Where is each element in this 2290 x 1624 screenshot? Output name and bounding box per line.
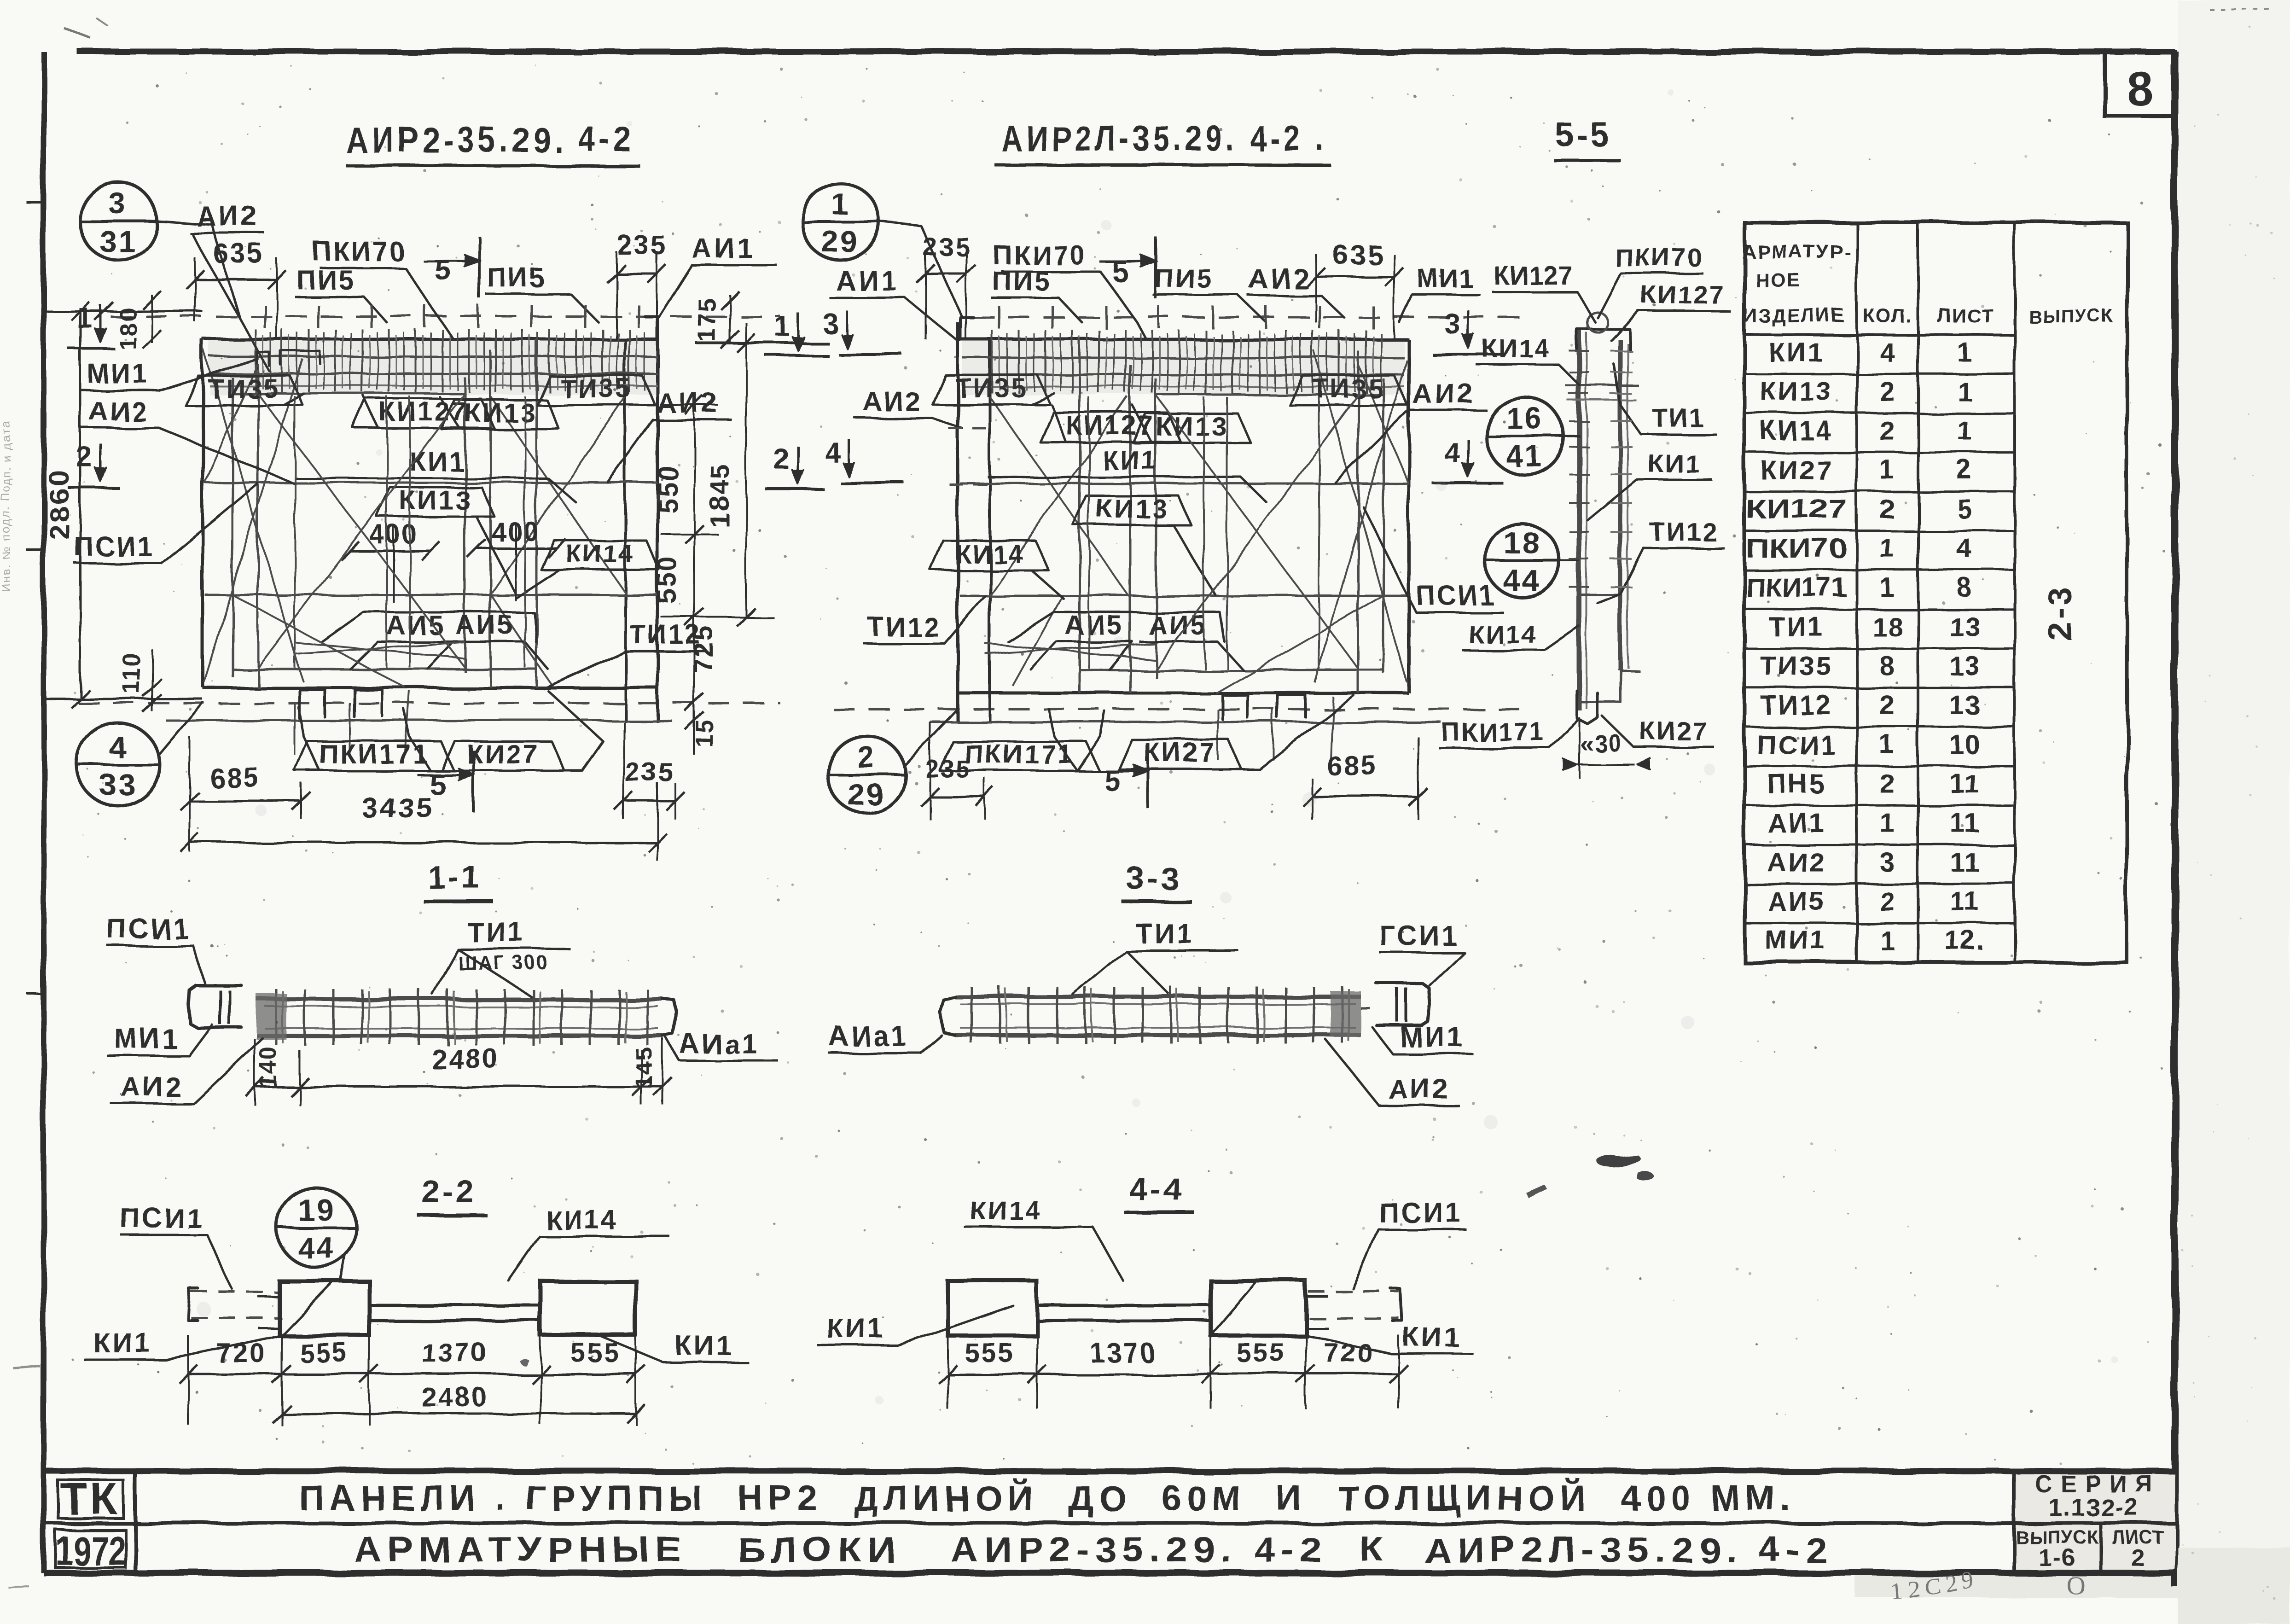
svg-text:2-3: 2-3 [2041, 584, 2078, 640]
svg-text:ЛИСТ: ЛИСТ [1938, 305, 1994, 326]
svg-text:110: 110 [118, 652, 145, 695]
svg-text:3: 3 [823, 308, 839, 340]
svg-text:8: 8 [1957, 573, 1973, 603]
svg-text:2: 2 [1880, 377, 1895, 407]
svg-text:235: 235 [923, 232, 971, 261]
3-3 left hook [939, 997, 955, 1035]
svg-text:ШАГ 300: ШАГ 300 [458, 952, 549, 974]
svg-text:КИ127: КИ127 [1642, 281, 1726, 310]
svg-text:8: 8 [1880, 651, 1895, 681]
svg-text:КИ127: КИ127 [1746, 495, 1847, 524]
circle 4/33 [77, 723, 160, 806]
svg-text:КИ14: КИ14 [955, 539, 1024, 568]
1-1 left hook ПСИ1 [188, 985, 241, 1027]
svg-text:41: 41 [1506, 439, 1543, 473]
svg-text:2: 2 [1880, 769, 1895, 799]
svg-text:2: 2 [1957, 455, 1973, 485]
svg-text:3: 3 [1880, 847, 1895, 877]
svg-text:КИ1: КИ1 [1402, 1321, 1461, 1352]
svg-text:2: 2 [857, 739, 876, 774]
svg-text:АИ5: АИ5 [1767, 887, 1826, 917]
svg-text:2: 2 [77, 442, 93, 473]
svg-text:ГСИ1: ГСИ1 [1379, 920, 1459, 951]
svg-text:АИ1: АИ1 [836, 265, 899, 296]
svg-text:АИ2: АИ2 [863, 387, 922, 417]
svg-text:555: 555 [571, 1338, 621, 1368]
svg-text:13: 13 [1949, 651, 1981, 681]
svg-text:175: 175 [693, 296, 721, 342]
svg-text:2: 2 [2131, 1544, 2145, 1571]
title block [2014, 1471, 2175, 1573]
svg-text:КИ1: КИ1 [674, 1330, 733, 1361]
svg-text:2480: 2480 [431, 1043, 500, 1074]
svg-text:555: 555 [299, 1338, 349, 1368]
svg-text:КИ14: КИ14 [970, 1196, 1043, 1226]
inner cage КИ1 [232, 378, 234, 677]
svg-text:ПИ5: ПИ5 [993, 267, 1052, 297]
svg-text:КИ1: КИ1 [409, 447, 465, 477]
svg-text:АИ2: АИ2 [196, 201, 260, 232]
mesh band (middle) [962, 357, 1404, 359]
svg-text:АИ2: АИ2 [89, 396, 148, 426]
svg-text:АРМАТУР-: АРМАТУР- [1742, 240, 1852, 262]
svg-text:13: 13 [1949, 691, 1981, 721]
svg-text:15: 15 [692, 718, 718, 748]
svg-text:555: 555 [1237, 1338, 1287, 1368]
svg-text:10: 10 [1949, 730, 1981, 760]
svg-text:КИ1: КИ1 [1768, 338, 1824, 367]
svg-text:4: 4 [1957, 534, 1973, 564]
svg-text:МИ1: МИ1 [1766, 926, 1827, 956]
svg-text:1.132-2: 1.132-2 [2048, 1494, 2139, 1521]
svg-text:ПКИ70: ПКИ70 [993, 240, 1086, 270]
svg-text:685: 685 [1327, 751, 1378, 781]
svg-text:ТИ12: ТИ12 [1650, 517, 1718, 546]
svg-text:1: 1 [1880, 534, 1895, 564]
circle 16/41 [1486, 397, 1563, 475]
ink blots [14, 1367, 41, 1369]
circle 18/44 [1486, 524, 1559, 598]
svg-text:2: 2 [1880, 495, 1895, 524]
svg-text:КИ1: КИ1 [1648, 449, 1701, 478]
svg-text:3: 3 [1444, 308, 1461, 340]
svg-text:Инв. № подл. Подп. и дата: Инв. № подл. Подп. и дата [0, 421, 13, 592]
svg-text:«30: «30 [1580, 730, 1623, 757]
svg-text:ПАНЕЛИ . ГРУППЫ НР2 ДЛИНОЙ: ПАНЕЛИ . ГРУППЫ НР2 ДЛИНОЙ ДО 60М И ТОЛЩ… [299, 1478, 1796, 1518]
svg-text:АИ2: АИ2 [121, 1071, 183, 1102]
svg-text:2-2: 2-2 [421, 1173, 476, 1209]
3-3 right hook ПСИ1 [1377, 984, 1430, 1025]
svg-text:3435: 3435 [361, 792, 434, 824]
parts table [1744, 222, 2127, 962]
left drawing: panel АИР2 [110, 315, 780, 318]
svg-text:1: 1 [1957, 377, 1973, 407]
svg-text:44: 44 [297, 1230, 335, 1264]
svg-text:1: 1 [1880, 730, 1895, 760]
svg-text:1: 1 [1880, 926, 1895, 956]
circle 3/31 [79, 182, 157, 260]
svg-text:ИЗДЕЛИЕ: ИЗДЕЛИЕ [1743, 305, 1846, 326]
svg-text:19: 19 [297, 1193, 335, 1227]
2-2 beam [191, 1291, 281, 1293]
svg-text:АИа1: АИа1 [679, 1028, 759, 1059]
svg-text:АИ5: АИ5 [386, 611, 445, 640]
border frame [77, 49, 2175, 55]
svg-text:3: 3 [109, 186, 128, 220]
svg-text:12.: 12. [1945, 926, 1985, 956]
svg-text:5: 5 [1957, 495, 1973, 524]
circle 2/29 [828, 736, 905, 813]
svg-text:ТИ1: ТИ1 [1768, 612, 1824, 642]
svg-text:МИ1: МИ1 [1400, 1022, 1465, 1053]
svg-text:АИ2: АИ2 [1767, 847, 1826, 877]
svg-text:АИ2: АИ2 [1248, 263, 1312, 294]
sheet number box 8 [2105, 52, 2175, 116]
svg-text:2: 2 [1880, 416, 1895, 446]
svg-text:29: 29 [848, 777, 885, 811]
svg-text:635: 635 [1332, 239, 1384, 270]
svg-text:АИ1: АИ1 [692, 233, 756, 264]
svg-text:ТК: ТК [60, 1474, 120, 1524]
svg-text:ТИ1: ТИ1 [1135, 918, 1194, 949]
1-1 beam [256, 997, 663, 1001]
svg-text:4: 4 [1880, 338, 1895, 367]
diagonal braces / leaders [204, 350, 303, 681]
svg-text:ПСИ1: ПСИ1 [120, 1203, 204, 1234]
svg-text:КИ1: КИ1 [93, 1327, 152, 1358]
svg-text:АИа1: АИа1 [829, 1021, 908, 1052]
svg-text:1: 1 [1880, 808, 1895, 838]
svg-text:ПКИ171: ПКИ171 [1441, 717, 1545, 746]
svg-text:ПИ5: ПИ5 [1155, 264, 1214, 294]
svg-text:2: 2 [1880, 887, 1895, 917]
svg-text:2: 2 [774, 444, 791, 476]
svg-text:725: 725 [689, 625, 719, 674]
svg-text:ПСИ1: ПСИ1 [107, 914, 191, 944]
svg-text:КИ14: КИ14 [545, 1205, 618, 1235]
svg-text:4-4: 4-4 [1129, 1171, 1184, 1207]
svg-text:29: 29 [822, 225, 859, 259]
svg-text:1845: 1845 [705, 462, 735, 527]
diagonal braces (middle) [1314, 351, 1407, 682]
svg-text:235: 235 [625, 757, 675, 787]
svg-text:КИ13: КИ13 [1760, 377, 1833, 407]
svg-text:АРМАТУРНЫЕ БЛОКИ АИР2-35.2: АРМАТУРНЫЕ БЛОКИ АИР2-35.29. 4-2 К АИР2Л… [355, 1531, 1832, 1570]
svg-text:КИ13: КИ13 [1156, 412, 1228, 442]
svg-text:4: 4 [825, 437, 842, 469]
2-2 leader РЧ [281, 1281, 334, 1335]
svg-text:АИ2: АИ2 [1388, 1073, 1450, 1104]
svg-text:АИ1: АИ1 [1767, 808, 1826, 838]
svg-text:НОЕ: НОЕ [1755, 269, 1801, 291]
svg-text:АИР2-35.29. 4-2: АИР2-35.29. 4-2 [345, 119, 635, 160]
svg-text:4: 4 [109, 730, 128, 764]
svg-text:КИ27: КИ27 [1144, 738, 1216, 768]
svg-text:КИ13: КИ13 [464, 398, 537, 428]
svg-text:11: 11 [1950, 808, 1980, 838]
svg-text:КИ1: КИ1 [827, 1313, 886, 1344]
svg-text:КИ13: КИ13 [1096, 494, 1168, 524]
svg-text:5-5: 5-5 [1556, 117, 1612, 154]
svg-text:235: 235 [925, 755, 971, 783]
svg-text:КИ14: КИ14 [1482, 333, 1550, 362]
middle drawing: panel АИР2Л [973, 316, 1519, 319]
svg-text:КИ27: КИ27 [1640, 717, 1709, 746]
svg-text:1370: 1370 [421, 1338, 488, 1368]
3-3 beam [955, 995, 1361, 999]
svg-text:1: 1 [831, 187, 850, 221]
svg-text:ТИ12: ТИ12 [868, 612, 941, 642]
svg-text:720: 720 [1324, 1338, 1374, 1368]
svg-text:1: 1 [774, 311, 791, 343]
svg-text:11: 11 [1950, 887, 1980, 917]
svg-text:13: 13 [1949, 612, 1981, 642]
svg-text:МИ1: МИ1 [114, 1023, 179, 1054]
svg-text:5: 5 [1111, 254, 1129, 287]
4-4 beam [947, 1281, 1037, 1335]
svg-text:44: 44 [1504, 564, 1541, 598]
circle 19/44 [277, 1188, 356, 1267]
svg-text:8: 8 [2127, 62, 2153, 116]
svg-text:31: 31 [99, 224, 136, 258]
svg-text:ПИ5: ПИ5 [296, 265, 355, 295]
svg-text:КИ1: КИ1 [1102, 446, 1158, 476]
svg-text:1972: 1972 [55, 1528, 125, 1574]
svg-text:33: 33 [99, 768, 137, 802]
svg-text:16: 16 [1506, 401, 1543, 435]
svg-text:АИ5: АИ5 [1065, 611, 1124, 640]
inner cage (middle) [1155, 378, 1157, 678]
svg-text:ПКИ70: ПКИ70 [1615, 243, 1703, 272]
svg-text:ПКИ70: ПКИ70 [312, 237, 406, 267]
svg-text:О: О [2067, 1572, 2086, 1600]
svg-text:КОЛ.: КОЛ. [1863, 305, 1912, 326]
svg-text:235: 235 [617, 230, 668, 260]
svg-text:3-3: 3-3 [1126, 860, 1180, 896]
svg-text:18: 18 [1504, 526, 1541, 560]
svg-text:АИ2: АИ2 [1412, 378, 1476, 409]
svg-text:5: 5 [435, 253, 452, 286]
1-1 right hook [663, 999, 678, 1036]
svg-text:КИ27: КИ27 [467, 739, 540, 769]
svg-text:2: 2 [1880, 691, 1895, 721]
svg-text:АИР2Л-35.29. 4-2 .: АИР2Л-35.29. 4-2 . [1001, 118, 1328, 159]
svg-text:ПКИ171: ПКИ171 [1746, 573, 1847, 603]
svg-text:ТИ35: ТИ35 [1760, 651, 1833, 681]
circle 1/29 [802, 183, 879, 261]
svg-text:КИ14: КИ14 [1760, 416, 1833, 446]
svg-text:550: 550 [653, 464, 683, 512]
svg-text:КИ14: КИ14 [566, 539, 635, 568]
svg-text:ПКИ70: ПКИ70 [1746, 534, 1847, 564]
svg-text:1: 1 [1957, 416, 1973, 446]
svg-text:ПСИ1: ПСИ1 [1379, 1197, 1463, 1228]
svg-text:ПСИ1: ПСИ1 [74, 532, 154, 562]
svg-text:18: 18 [1872, 612, 1904, 642]
svg-text:ТИ1: ТИ1 [467, 917, 526, 948]
section 5-5 drawing [1577, 329, 1582, 710]
svg-text:1: 1 [1957, 338, 1973, 367]
svg-text:ПСИ1: ПСИ1 [1756, 730, 1837, 760]
svg-text:1-6: 1-6 [2038, 1544, 2075, 1571]
svg-text:4: 4 [1444, 437, 1461, 469]
svg-text:ПИ5: ПИ5 [487, 263, 546, 293]
svg-text:11: 11 [1950, 847, 1980, 877]
svg-text:КИ27: КИ27 [1760, 455, 1833, 485]
svg-text:1: 1 [1880, 455, 1895, 485]
svg-text:АИ5: АИ5 [456, 611, 515, 640]
svg-text:АИ2: АИ2 [657, 388, 720, 419]
svg-text:555: 555 [965, 1338, 1015, 1368]
svg-text:685: 685 [209, 763, 261, 793]
svg-text:ТИ1: ТИ1 [1653, 404, 1706, 433]
svg-text:2480: 2480 [421, 1382, 488, 1412]
svg-text:1370: 1370 [1090, 1338, 1157, 1368]
svg-text:2860: 2860 [44, 469, 76, 540]
svg-text:ТИ12: ТИ12 [1760, 691, 1833, 721]
svg-text:АИ5: АИ5 [1148, 611, 1207, 640]
svg-text:МИ1: МИ1 [1417, 264, 1474, 293]
svg-text:ПСИ1: ПСИ1 [1416, 581, 1496, 611]
svg-text:ВЫПУСК: ВЫПУСК [2028, 306, 2114, 326]
svg-text:1: 1 [1880, 573, 1895, 603]
svg-text:МИ1: МИ1 [87, 359, 149, 389]
svg-text:КИ127: КИ127 [1494, 261, 1573, 290]
svg-text:ПН5: ПН5 [1767, 769, 1826, 799]
svg-text:1-1: 1-1 [428, 860, 482, 896]
svg-text:720: 720 [216, 1338, 267, 1368]
mesh band (top reinforcement) [209, 356, 657, 358]
svg-text:11: 11 [1950, 769, 1980, 799]
